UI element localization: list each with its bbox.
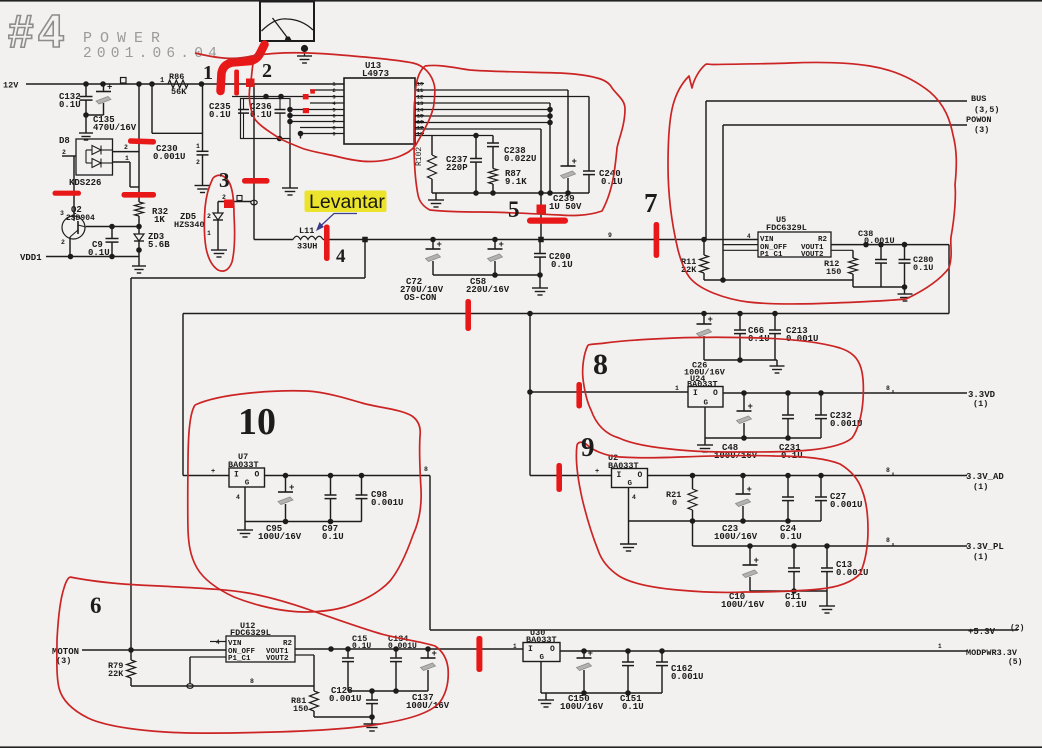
U2 ground rail xyxy=(629,488,822,545)
U12 bottom rail xyxy=(131,678,314,686)
svg-text:POWER: POWER xyxy=(83,30,168,47)
svg-text:L11: L11 xyxy=(299,226,314,236)
capacitor C135 470U/16V xyxy=(93,83,137,134)
svg-text:1: 1 xyxy=(207,230,211,237)
svg-text:8: 8 xyxy=(886,467,890,474)
red bar mark 7 xyxy=(654,222,660,258)
capacitor C232 0.001U xyxy=(815,393,862,438)
svg-text:1U 50V: 1U 50V xyxy=(549,202,582,212)
svg-text:0.022U: 0.022U xyxy=(504,154,536,164)
wire U5 out to bus corner xyxy=(948,245,950,314)
capacitor C238 0.022U xyxy=(487,136,536,169)
svg-text:+: + xyxy=(572,157,577,167)
capacitor C58 220U/16V xyxy=(466,240,510,296)
red bar left low xyxy=(53,191,82,196)
ground C26 bank xyxy=(770,365,785,367)
svg-text:5: 5 xyxy=(508,197,520,222)
vertical to U24/U2 xyxy=(527,314,533,476)
svg-text:2: 2 xyxy=(196,159,200,166)
svg-text:R102: R102 xyxy=(415,147,424,166)
svg-text:8: 8 xyxy=(424,466,428,473)
net label +5.3V (2) xyxy=(968,624,1024,637)
ground U7 xyxy=(237,529,253,531)
wire pin 18 row xyxy=(415,96,589,98)
svg-text:0.1U: 0.1U xyxy=(622,702,644,712)
svg-text:I: I xyxy=(693,389,698,398)
zener ZD5 HZS340 xyxy=(174,212,223,250)
red loop 6 xyxy=(57,577,448,733)
Q2 base wire xyxy=(86,224,139,230)
capacitor C134 0.001U xyxy=(388,634,417,691)
svg-text:12V: 12V xyxy=(3,81,19,91)
svg-text:10: 10 xyxy=(238,401,276,443)
svg-text:Levantar: Levantar xyxy=(309,191,385,213)
red loop 2 around U13 xyxy=(195,53,435,162)
svg-text:0.001U: 0.001U xyxy=(864,236,895,246)
svg-text:0.1U: 0.1U xyxy=(913,263,933,273)
svg-text:BA033T: BA033T xyxy=(608,461,639,471)
svg-text:3: 3 xyxy=(60,210,64,217)
wire MOTON input xyxy=(82,647,226,653)
capacitor C66 0.1U xyxy=(734,311,770,360)
capacitor C128 0.001U xyxy=(329,686,428,717)
capacitor C48 100U/16V xyxy=(714,393,758,461)
IC U7 BA033T xyxy=(228,452,265,488)
net label 3.3V_PL (1) xyxy=(966,542,1004,562)
svg-text:100U/16V: 100U/16V xyxy=(258,532,302,542)
svg-text:VOUT2: VOUT2 xyxy=(266,655,289,663)
resistor R32 1K xyxy=(135,202,169,225)
svg-text:P1_C1: P1_C1 xyxy=(228,655,251,663)
svg-text:8: 8 xyxy=(886,385,890,392)
red mark thick swoosh xyxy=(221,45,265,92)
red mark square on rail xyxy=(246,79,255,88)
U13 gnd pin drop xyxy=(290,131,303,188)
U30 ground rail xyxy=(541,662,662,701)
transistor Q2 2SD904 xyxy=(60,205,95,246)
svg-text:0.1U: 0.1U xyxy=(352,642,371,651)
svg-text:7: 7 xyxy=(644,188,658,218)
PL ground rail xyxy=(750,588,827,606)
svg-text:0.001U: 0.001U xyxy=(830,500,862,510)
svg-text:+: + xyxy=(747,485,752,495)
svg-text:R2: R2 xyxy=(283,640,293,648)
wire main output rail xyxy=(323,239,758,241)
wire 3.3V bus xyxy=(183,311,949,317)
capacitor C236 0.1U xyxy=(250,99,286,139)
resistor R12 150 xyxy=(824,250,858,287)
svg-text:O: O xyxy=(550,645,555,654)
red square mark 3 xyxy=(224,200,234,209)
svg-text:0.001U: 0.001U xyxy=(671,672,703,682)
svg-text:4: 4 xyxy=(632,494,636,501)
wire BUS line xyxy=(706,101,967,240)
red bar mid low xyxy=(122,192,157,198)
svg-text:D8: D8 xyxy=(59,136,70,146)
svg-text:MODPWR3.3V: MODPWR3.3V xyxy=(966,648,1018,658)
svg-text:2SD904: 2SD904 xyxy=(66,214,95,223)
capacitor C11 0.1U xyxy=(785,546,807,610)
svg-text:4: 4 xyxy=(747,233,751,240)
capacitor C97 0.1U xyxy=(322,476,344,543)
svg-text:+: + xyxy=(107,83,112,93)
net label MODPWR3.3V (5) xyxy=(966,648,1022,667)
svg-text:O: O xyxy=(713,389,718,398)
red bar mark 9 xyxy=(556,463,562,492)
junction dots on 12V rail xyxy=(83,81,204,87)
svg-text:2: 2 xyxy=(207,213,211,220)
bottom scan border xyxy=(0,746,1042,748)
vertical to U7 xyxy=(182,314,184,476)
red bar below bus xyxy=(465,299,471,331)
ground below C200 xyxy=(532,287,548,289)
wire 3.3VD output xyxy=(723,385,967,396)
capacitor C9 0.1U xyxy=(88,227,119,259)
svg-text:22K: 22K xyxy=(108,669,124,679)
resistor R21 0 xyxy=(666,476,697,522)
svg-text:HZS340: HZS340 xyxy=(174,220,205,230)
IC U12 FDC6329L xyxy=(216,621,295,663)
pin marker square xyxy=(121,78,127,84)
U5 control wires xyxy=(723,245,758,251)
capacitor C23 100U/16V xyxy=(714,476,758,543)
red bar mark 5 xyxy=(527,218,568,224)
SW node vertical to L11 xyxy=(253,84,255,240)
bypass box C235/C236 xyxy=(232,94,344,142)
wire U2 input xyxy=(530,468,612,476)
svg-text:(2): (2) xyxy=(1010,624,1024,633)
U13 left pin stubs xyxy=(290,81,344,138)
svg-text:VIN: VIN xyxy=(760,236,774,244)
wire to C230 xyxy=(152,84,203,151)
U12 VOUT2 wire xyxy=(295,655,314,686)
svg-text:#4: #4 xyxy=(8,5,68,57)
U24 ground rail xyxy=(705,407,821,445)
net label 3.3V_AD (1) xyxy=(966,472,1004,492)
red bar mark 8 xyxy=(576,382,582,409)
Q2 collector wire xyxy=(73,156,75,216)
svg-text:100U/16V: 100U/16V xyxy=(560,702,604,712)
wire VDD1 xyxy=(46,254,139,260)
svg-text:0.001U: 0.001U xyxy=(836,568,868,578)
U5 cap ground rail xyxy=(853,284,907,294)
svg-text:2: 2 xyxy=(124,144,128,151)
svg-text:+: + xyxy=(754,556,759,566)
svg-text:56K: 56K xyxy=(171,87,187,97)
red bar on SW node xyxy=(242,178,270,184)
wire pin 19 row xyxy=(415,89,568,91)
svg-text:150: 150 xyxy=(826,267,841,277)
wire 12V rail xyxy=(26,83,344,85)
zener ZD5 branch wire xyxy=(218,194,251,213)
svg-text:(1): (1) xyxy=(973,552,988,562)
red bar bottom row xyxy=(476,636,482,672)
svg-text:1: 1 xyxy=(160,77,164,85)
inductor L11 33UH xyxy=(254,226,323,252)
svg-text:9: 9 xyxy=(581,432,595,462)
red mark bar near 1 xyxy=(234,70,239,96)
ground below ZD3 xyxy=(132,265,146,267)
svg-text:0.1U: 0.1U xyxy=(59,100,81,110)
ground U30 xyxy=(538,699,554,701)
svg-text:220U/16V: 220U/16V xyxy=(466,285,510,295)
red bar right of D8 xyxy=(128,138,156,145)
red square mark 5 xyxy=(537,205,547,215)
ground U5 caps xyxy=(898,293,913,295)
ground below C230 xyxy=(195,185,211,187)
svg-text:0.1U: 0.1U xyxy=(322,532,344,542)
svg-text:BUS: BUS xyxy=(971,94,986,104)
resistor R79 22K xyxy=(108,650,136,686)
svg-text:+: + xyxy=(708,315,713,325)
net label MOTON (3) xyxy=(52,647,79,666)
svg-text:BA033T: BA033T xyxy=(526,635,557,645)
resistor R86 56K xyxy=(160,72,188,97)
ground below rail xyxy=(428,193,444,207)
long vertical feeder x131 xyxy=(130,278,132,650)
red loop 9 xyxy=(576,442,868,592)
svg-text:G: G xyxy=(704,400,709,408)
net label 3.3VD (1) xyxy=(968,390,996,409)
top scan border xyxy=(0,0,1042,2)
svg-text:9: 9 xyxy=(608,232,612,239)
svg-text:1: 1 xyxy=(125,155,129,162)
ground below C132 xyxy=(79,132,93,134)
svg-text:100U/16V: 100U/16V xyxy=(721,600,765,610)
svg-text:9: 9 xyxy=(332,131,335,138)
D8 pin to rail wires xyxy=(113,84,140,202)
cap bank ground rail xyxy=(433,272,543,288)
meter M1 xyxy=(260,2,314,42)
svg-text:6: 6 xyxy=(90,593,102,618)
svg-text:(3): (3) xyxy=(974,125,989,135)
capacitor C231 0.1U xyxy=(779,393,803,461)
svg-text:8: 8 xyxy=(593,348,608,381)
capacitor C98 0.001U xyxy=(356,476,404,522)
svg-text:100U/16V: 100U/16V xyxy=(406,701,450,711)
svg-text:(1): (1) xyxy=(973,399,988,409)
svg-text:+: + xyxy=(595,468,599,476)
red loop 3 xyxy=(204,175,234,271)
svg-text:(5): (5) xyxy=(1008,658,1022,667)
capacitor C13 0.001U xyxy=(821,546,868,591)
C26 bank ground rail xyxy=(704,357,777,366)
svg-text:VOUT2: VOUT2 xyxy=(801,251,824,259)
connector bubble on SW node xyxy=(251,200,257,205)
svg-text:P1_C1: P1_C1 xyxy=(760,251,783,259)
svg-text:POWON: POWON xyxy=(966,115,992,125)
U12 stub pin xyxy=(210,641,226,643)
wire MODPWR output xyxy=(560,643,967,654)
capacitor C240 0.1U xyxy=(583,97,623,194)
IC U2 BA033T xyxy=(608,453,648,488)
IC U13 L4973 xyxy=(344,61,415,144)
svg-text:FDC6329L: FDC6329L xyxy=(230,628,271,638)
wire U12 output xyxy=(295,646,523,652)
IC U24 BA033T xyxy=(687,374,723,408)
capacitor C200 0.1U xyxy=(534,240,573,276)
resistor R87 9.1K xyxy=(489,169,528,194)
svg-text:+: + xyxy=(437,240,442,250)
svg-text:4: 4 xyxy=(216,639,220,646)
capacitor C230 0.001U xyxy=(153,143,209,185)
D8 pin2 stub xyxy=(62,149,76,156)
wire 3.3V_PL xyxy=(693,521,968,549)
U13 right pin stubs xyxy=(415,81,424,138)
wire pin 12 row xyxy=(415,129,541,240)
capacitor C213 0.001U xyxy=(769,311,818,360)
svg-text:0.001U: 0.001U xyxy=(371,498,403,508)
svg-text:2: 2 xyxy=(61,239,65,246)
svg-text:+: + xyxy=(289,483,294,493)
wire pin 11 row xyxy=(415,135,493,137)
svg-text:33UH: 33UH xyxy=(297,242,317,252)
meter ground node xyxy=(297,45,312,63)
node ZD3 bottom xyxy=(136,241,142,266)
svg-text:1: 1 xyxy=(203,62,213,84)
wire U7 output xyxy=(265,466,431,478)
svg-text:8: 8 xyxy=(886,537,890,544)
wire pin 17 row + tied pins xyxy=(415,103,553,193)
svg-text:1: 1 xyxy=(196,143,200,150)
svg-text:0.001U: 0.001U xyxy=(153,152,185,162)
svg-text:BA033T: BA033T xyxy=(687,380,718,390)
ground U12 output xyxy=(364,714,381,731)
U5 output wire xyxy=(831,242,949,248)
net label BUS (3,5) xyxy=(971,94,1000,115)
highlight Levantar xyxy=(305,191,387,214)
junction squares on rail xyxy=(362,232,707,242)
capacitor C24 0.1U xyxy=(780,476,802,543)
Q2 emitter wire xyxy=(69,237,71,257)
svg-text:I: I xyxy=(617,471,622,480)
svg-text:+: + xyxy=(432,649,437,659)
svg-text:3.3V_AD: 3.3V_AD xyxy=(966,472,1004,482)
capacitor C15 0.1U xyxy=(342,634,371,691)
D8 pin1 wire loop xyxy=(113,155,140,187)
svg-text:+: + xyxy=(748,402,753,412)
net label POWON (3) xyxy=(966,115,992,135)
capacitor C162 0.001U xyxy=(656,651,703,693)
arrow to L11 xyxy=(316,214,357,232)
svg-text:0.001U: 0.001U xyxy=(388,642,417,651)
svg-text:5.6B: 5.6B xyxy=(148,240,170,250)
wire U24 input xyxy=(530,385,688,392)
svg-text:1K: 1K xyxy=(154,215,165,225)
capacitor C280 0.1U xyxy=(899,245,934,287)
svg-text:O: O xyxy=(638,471,643,480)
U7 ground rail xyxy=(236,487,362,530)
wire 3.3V_AD output xyxy=(648,467,968,478)
svg-text:3.3V_PL: 3.3V_PL xyxy=(966,542,1004,552)
ground PL xyxy=(819,605,835,607)
svg-text:VDD1: VDD1 xyxy=(20,253,42,263)
ground U2 xyxy=(620,543,637,545)
svg-text:I: I xyxy=(234,471,239,480)
svg-text:0.1U: 0.1U xyxy=(551,260,573,270)
svg-text:G: G xyxy=(540,654,545,662)
capacitor C72 270U/10V OS-CON xyxy=(400,240,444,304)
svg-text:L4973: L4973 xyxy=(362,69,389,79)
svg-text:470U/16V: 470U/16V xyxy=(93,123,137,133)
svg-text:8: 8 xyxy=(250,678,254,685)
svg-text:1: 1 xyxy=(675,385,679,392)
svg-text:OS-CON: OS-CON xyxy=(404,293,436,303)
red bar mark 4 xyxy=(324,225,330,262)
connector bubble U12 xyxy=(187,684,193,689)
node C132/C135 join xyxy=(83,112,103,133)
capacitor C27 0.001U xyxy=(815,476,862,522)
capacitor C150 100U/16V xyxy=(560,649,604,712)
rail branch down-left to big loop xyxy=(131,240,365,279)
svg-text:150: 150 xyxy=(293,704,308,714)
svg-text:+5.3V: +5.3V xyxy=(968,627,996,637)
svg-text:(3): (3) xyxy=(56,656,71,666)
ground below U13 xyxy=(282,187,298,189)
svg-text:100U/16V: 100U/16V xyxy=(714,532,758,542)
svg-text:FDC6329L: FDC6329L xyxy=(766,223,807,233)
svg-text:0.1U: 0.1U xyxy=(209,110,231,120)
capacitor C26 100U/16V xyxy=(684,311,726,378)
svg-text:2: 2 xyxy=(262,60,272,82)
svg-text:I: I xyxy=(528,645,533,654)
ground U24 xyxy=(697,444,713,446)
svg-text:O: O xyxy=(255,471,260,480)
diode pack D8 KDS226 xyxy=(59,136,113,188)
U12 control wire xyxy=(190,657,226,686)
U5 bottom rail xyxy=(704,277,853,283)
svg-text:G: G xyxy=(628,480,633,488)
ground below ZD5 xyxy=(211,249,227,251)
svg-text:+: + xyxy=(588,649,593,659)
capacitor C239 1U 50V xyxy=(549,90,582,212)
capacitor C10 100U/16V xyxy=(721,546,765,610)
svg-text:G: G xyxy=(245,480,250,488)
wire POWON line xyxy=(723,125,967,280)
capacitor C38 0.001U xyxy=(858,229,895,287)
resistor R11 22K xyxy=(681,240,709,281)
resistor R81 150 xyxy=(291,686,372,717)
capacitor C132 0.1U xyxy=(59,84,93,115)
svg-text:+: + xyxy=(211,468,215,476)
svg-text:+: + xyxy=(499,240,504,250)
red loop 7 top right xyxy=(668,62,956,304)
red loop 5 around output network xyxy=(414,65,625,215)
svg-text:R86: R86 xyxy=(169,72,184,82)
svg-text:VIN: VIN xyxy=(228,640,242,648)
svg-text:1: 1 xyxy=(938,643,942,650)
capacitor C151 0.1U xyxy=(620,651,644,712)
svg-text:R2: R2 xyxy=(818,236,828,244)
svg-text:2: 2 xyxy=(62,149,66,156)
zener ZD3 5.6B xyxy=(134,232,170,250)
svg-text:0: 0 xyxy=(672,498,677,508)
resistor R102 xyxy=(415,136,437,194)
IC U5 FDC6329L xyxy=(747,215,831,259)
node base junction xyxy=(136,216,142,234)
red pin squares U13 xyxy=(303,89,315,113)
svg-text:4: 4 xyxy=(336,246,346,267)
IC U30 BA033T xyxy=(513,628,560,662)
svg-text:220P: 220P xyxy=(446,163,468,173)
wire +5.3V feeder xyxy=(430,476,1018,631)
svg-text:0.001U: 0.001U xyxy=(329,694,361,704)
capacitor C235 0.1U xyxy=(209,99,249,139)
svg-text:(3,5): (3,5) xyxy=(974,105,1000,115)
red loop 10 xyxy=(188,391,421,612)
capacitor C137 100U/16V xyxy=(406,649,450,711)
svg-text:1: 1 xyxy=(513,643,517,650)
